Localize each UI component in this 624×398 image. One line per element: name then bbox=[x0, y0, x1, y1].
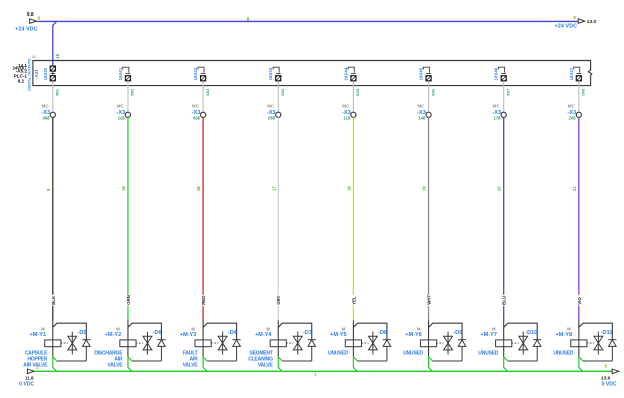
pneumatic valve symbol branch 7 bbox=[519, 332, 528, 355]
valve coil return wire branch 4 bbox=[277, 347, 279, 357]
internal jumper hook branch 3 bbox=[198, 67, 204, 72]
svg-text:VIO: VIO bbox=[577, 297, 582, 305]
wire BLU branch 7 bbox=[503, 117, 505, 320]
svg-text:178: 178 bbox=[494, 115, 502, 120]
solenoid coil +M-Y2 bbox=[120, 340, 136, 347]
node 0 VDC supply arrow from sheet 11.8 (off-page arrow) bbox=[27, 369, 34, 374]
diode -D11 bbox=[608, 340, 616, 361]
svg-text:MC: MC bbox=[192, 104, 200, 109]
terminal connection dash branch 1 bbox=[51, 73, 56, 75]
svg-text:148: 148 bbox=[418, 115, 426, 120]
wire color label GRN bbox=[125, 295, 130, 306]
wire YEL branch 5 bbox=[352, 117, 354, 320]
svg-text:-D11: -D11 bbox=[601, 330, 613, 336]
diode -D7 bbox=[308, 340, 316, 361]
wire green return diagonal branch 7 bbox=[504, 357, 508, 361]
valve actuator link (dashed) branch 8 bbox=[586, 342, 594, 344]
terminal connection dash branch 4 bbox=[276, 73, 281, 75]
svg-text:-D7: -D7 bbox=[303, 330, 312, 336]
connector -X3 pin circle branch 6 bbox=[426, 112, 431, 117]
valve coil return wire branch 1 bbox=[52, 347, 54, 357]
svg-text:098: 098 bbox=[43, 115, 51, 120]
valve coil feed wire branch 4 bbox=[277, 321, 279, 340]
diode branch tap -D10 bbox=[504, 323, 538, 340]
valve coil return wire branch 8 bbox=[578, 347, 580, 357]
svg-text:MC: MC bbox=[418, 104, 426, 109]
wire color label VIO bbox=[576, 295, 581, 306]
svg-text:19: 19 bbox=[422, 186, 427, 191]
svg-text:+M-Y7: +M-Y7 bbox=[480, 332, 497, 338]
svg-text:BLK: BLK bbox=[51, 295, 56, 305]
solenoid coil +M-Y6 bbox=[420, 340, 436, 347]
svg-text:16045: 16045 bbox=[419, 67, 424, 80]
pneumatic valve symbol branch 8 bbox=[594, 332, 603, 355]
svg-text:8: 8 bbox=[573, 15, 576, 20]
svg-text:8: 8 bbox=[38, 15, 41, 20]
diode branch tap -D11 bbox=[579, 323, 613, 340]
svg-text:VALVE: VALVE bbox=[108, 362, 124, 368]
svg-text:M: M bbox=[41, 326, 45, 331]
terminal 7 symbol (bottom) bbox=[501, 75, 507, 81]
svg-text:21: 21 bbox=[572, 186, 577, 191]
svg-text:5: 5 bbox=[605, 364, 608, 369]
svg-text:M: M bbox=[191, 326, 195, 331]
svg-text:GRY: GRY bbox=[276, 295, 281, 304]
solenoid coil +M-Y5 bbox=[345, 340, 361, 347]
svg-text:16042: 16042 bbox=[193, 67, 198, 80]
svg-text:058: 058 bbox=[193, 115, 201, 120]
svg-text:0 VDC: 0 VDC bbox=[602, 382, 617, 388]
svg-text:14: 14 bbox=[32, 55, 36, 59]
wire color label YEL bbox=[351, 295, 356, 306]
diode -D6 bbox=[157, 340, 165, 361]
valve coil return wire branch 5 bbox=[352, 347, 354, 357]
wire GRY branch 4 bbox=[277, 117, 279, 320]
svg-text:-A21: -A21 bbox=[34, 69, 39, 79]
terminal 8 symbol (bottom) bbox=[576, 75, 582, 81]
svg-text:+M-Y2: +M-Y2 bbox=[105, 332, 122, 338]
valve actuator link (dashed) branch 2 bbox=[136, 342, 144, 344]
svg-text:5A3: 5A3 bbox=[206, 89, 210, 96]
module -A21 output terminal box bbox=[33, 61, 592, 86]
svg-text:9.8: 9.8 bbox=[27, 12, 34, 18]
diode -D9 bbox=[458, 340, 466, 361]
pneumatic valve symbol branch 4 bbox=[293, 332, 302, 355]
wire green return diagonal branch 4 bbox=[278, 357, 282, 361]
terminal 1a symbol (branch 1 top) bbox=[50, 65, 56, 71]
pneumatic valve symbol branch 6 bbox=[444, 332, 453, 355]
svg-text:5A5: 5A5 bbox=[356, 89, 360, 96]
terminal 2 symbol (bottom) bbox=[125, 75, 131, 81]
svg-text:16041: 16041 bbox=[118, 67, 123, 80]
svg-text:5A6: 5A6 bbox=[431, 89, 435, 96]
valve actuator link (dashed) branch 1 bbox=[60, 342, 68, 344]
terminal link branch 1 bbox=[52, 72, 54, 75]
diode -D4 bbox=[233, 340, 241, 361]
connector -X3 pin circle branch 5 bbox=[351, 112, 356, 117]
internal jumper hook branch 6 bbox=[423, 67, 429, 72]
diode return rail branch 7 bbox=[508, 360, 538, 362]
wire 0VDC drop branch 4 bbox=[278, 356, 282, 371]
solenoid coil +M-Y7 bbox=[496, 340, 512, 347]
svg-text:15: 15 bbox=[55, 53, 60, 58]
wire 0VDC drop branch 2 bbox=[128, 356, 132, 371]
solenoid coil +M-Y4 bbox=[270, 340, 286, 347]
svg-text:WHT: WHT bbox=[427, 294, 432, 304]
svg-text:0 VDC: 0 VDC bbox=[19, 382, 34, 388]
diode -D5 bbox=[82, 340, 90, 361]
svg-text:UNUSED: UNUSED bbox=[478, 350, 498, 356]
wire BLK branch 1 bbox=[52, 117, 54, 320]
wire branch 3 module to connector (light grey) bbox=[202, 81, 204, 112]
valve actuator link (dashed) branch 6 bbox=[436, 342, 444, 344]
svg-text:13.0: 13.0 bbox=[587, 19, 597, 25]
svg-text:GRN: GRN bbox=[126, 295, 131, 305]
wire 0VDC drop branch 8 bbox=[579, 356, 583, 371]
svg-text:MC: MC bbox=[568, 104, 576, 109]
valve coil feed wire branch 1 bbox=[52, 321, 54, 340]
connector -X3 pin circle branch 7 bbox=[501, 112, 506, 117]
valve actuator link (dashed) branch 3 bbox=[211, 342, 219, 344]
svg-text:5A8: 5A8 bbox=[582, 89, 586, 96]
valve coil feed wire branch 6 bbox=[428, 321, 430, 340]
internal jumper hook branch 7 bbox=[499, 67, 505, 72]
svg-text:17: 17 bbox=[271, 186, 276, 191]
wire color label WHT bbox=[426, 295, 431, 306]
svg-text:+M-Y4: +M-Y4 bbox=[255, 332, 273, 338]
diode return rail branch 4 bbox=[282, 360, 312, 362]
svg-text:+M-Y1: +M-Y1 bbox=[29, 332, 46, 338]
valve actuator link (dashed) branch 5 bbox=[361, 342, 369, 344]
diode -D8 bbox=[383, 340, 391, 361]
wire 0VDC drop branch 7 bbox=[504, 356, 508, 371]
wire +24 VDC bus bbox=[36, 20, 578, 22]
svg-text:8: 8 bbox=[247, 17, 250, 22]
svg-text:16040: 16040 bbox=[43, 67, 48, 80]
connector -X3 pin circle branch 4 bbox=[276, 112, 281, 117]
wire green return diagonal branch 6 bbox=[429, 357, 433, 361]
svg-text:+M-Y8: +M-Y8 bbox=[556, 332, 573, 338]
valve coil return wire branch 2 bbox=[127, 347, 129, 357]
svg-text:5A4: 5A4 bbox=[281, 88, 285, 96]
wire branch 2 module to connector (light grey) bbox=[127, 81, 129, 112]
wire branch 6 module to connector (light grey) bbox=[428, 81, 430, 112]
svg-text:BLU: BLU bbox=[502, 296, 507, 305]
terminal 1 symbol (bottom) bbox=[50, 75, 56, 81]
svg-text:-D5: -D5 bbox=[77, 330, 86, 336]
diode return rail branch 2 bbox=[132, 360, 162, 362]
valve actuator link (dashed) branch 4 bbox=[286, 342, 294, 344]
svg-text:1: 1 bbox=[314, 372, 317, 377]
wire branch 4 module to connector (light grey) bbox=[277, 81, 279, 112]
diode return rail branch 8 bbox=[583, 360, 613, 362]
internal jumper hook branch 2 bbox=[123, 67, 129, 72]
terminal connection dash branch 8 bbox=[577, 73, 582, 75]
wire color label RED bbox=[201, 295, 206, 306]
svg-text:-D10: -D10 bbox=[525, 330, 537, 336]
svg-text:M: M bbox=[342, 326, 346, 331]
valve coil return wire branch 6 bbox=[428, 347, 430, 357]
wire color label BLK bbox=[50, 295, 55, 306]
wire branch 7 module to connector (light grey) bbox=[503, 81, 505, 112]
wire +24VDC drop to module branch 1 bbox=[53, 21, 57, 65]
svg-text:VALVE: VALVE bbox=[258, 362, 274, 368]
valve coil return wire branch 3 bbox=[202, 347, 204, 357]
svg-text:+M-Y6: +M-Y6 bbox=[405, 332, 422, 338]
solenoid coil +M-Y3 bbox=[195, 340, 211, 347]
svg-text:UNUSED: UNUSED bbox=[553, 350, 573, 356]
wire branch 8 module to connector (light grey) bbox=[578, 81, 580, 112]
wire green return diagonal branch 1 bbox=[53, 357, 57, 361]
diode branch tap -D8 bbox=[353, 323, 387, 340]
svg-text:+24 VDC: +24 VDC bbox=[555, 23, 578, 29]
svg-text:-D8: -D8 bbox=[378, 330, 387, 336]
svg-text:M: M bbox=[116, 326, 120, 331]
svg-text:MC: MC bbox=[342, 104, 350, 109]
svg-text:128: 128 bbox=[118, 115, 126, 120]
terminal 4 symbol (bottom) bbox=[275, 75, 281, 81]
svg-text:MC: MC bbox=[267, 104, 275, 109]
svg-text:MC: MC bbox=[117, 104, 125, 109]
svg-text:8.2: 8.2 bbox=[18, 78, 25, 83]
diode return rail branch 3 bbox=[207, 360, 237, 362]
svg-text:11.8: 11.8 bbox=[25, 376, 34, 381]
diode return rail branch 6 bbox=[433, 360, 463, 362]
diode branch tap -D9 bbox=[429, 323, 463, 340]
wire WHT branch 6 bbox=[428, 117, 430, 320]
terminal 6 symbol (bottom) bbox=[425, 75, 431, 81]
terminal connection dash branch 3 bbox=[201, 73, 206, 75]
svg-text:M: M bbox=[267, 326, 271, 331]
diode return rail branch 5 bbox=[357, 360, 387, 362]
connector -X3 pin circle branch 3 bbox=[201, 112, 206, 117]
svg-text:RED: RED bbox=[201, 296, 206, 305]
svg-text:YEL: YEL bbox=[351, 296, 356, 305]
terminal connection dash branch 2 bbox=[126, 73, 131, 75]
svg-text:DIGITAL OUTPUTS: DIGITAL OUTPUTS bbox=[27, 58, 31, 91]
svg-text:18: 18 bbox=[346, 186, 351, 191]
svg-text:-D6: -D6 bbox=[153, 330, 162, 336]
connector -X3 pin circle branch 8 bbox=[576, 112, 581, 117]
svg-text:088: 088 bbox=[268, 115, 276, 120]
diode branch tap -D4 bbox=[203, 323, 237, 340]
solenoid coil +M-Y1 bbox=[45, 340, 61, 347]
pneumatic valve symbol branch 2 bbox=[143, 332, 152, 355]
svg-text:M: M bbox=[417, 326, 421, 331]
svg-text:VALVE: VALVE bbox=[183, 362, 199, 368]
svg-text:16046: 16046 bbox=[494, 67, 499, 80]
svg-text:9: 9 bbox=[46, 188, 51, 191]
terminal connection dash branch 5 bbox=[351, 73, 356, 75]
diode branch tap -D5 bbox=[53, 323, 87, 340]
pneumatic valve symbol branch 1 bbox=[68, 332, 77, 355]
svg-text:9B1: 9B1 bbox=[56, 89, 60, 96]
wire VIO branch 8 bbox=[578, 117, 580, 320]
wire color label BLU bbox=[501, 295, 506, 306]
svg-text:208: 208 bbox=[569, 115, 577, 120]
svg-text:16044: 16044 bbox=[343, 67, 348, 80]
wire RED branch 3 bbox=[202, 117, 204, 320]
wire green return diagonal branch 5 bbox=[353, 357, 357, 361]
node 0 VDC to sheet 13.0 (off-page arrow) bbox=[612, 369, 619, 374]
svg-text:MC: MC bbox=[42, 104, 50, 109]
valve coil return wire branch 7 bbox=[503, 347, 505, 357]
pneumatic valve symbol branch 5 bbox=[369, 332, 378, 355]
wire branch 1 module to connector (light grey) bbox=[52, 81, 54, 112]
connector -X3 pin circle branch 1 bbox=[50, 112, 55, 117]
node +24 VDC to sheet 13.0 (off-page arrow) bbox=[578, 19, 585, 24]
diode branch tap -D6 bbox=[128, 323, 162, 340]
valve coil feed wire branch 5 bbox=[352, 321, 354, 340]
valve actuator link (dashed) branch 7 bbox=[511, 342, 519, 344]
pneumatic valve symbol branch 3 bbox=[218, 332, 227, 355]
svg-text:16043: 16043 bbox=[268, 67, 273, 80]
internal jumper hook branch 8 bbox=[574, 67, 580, 72]
wire GRN branch 2 bbox=[127, 117, 129, 320]
wire branch 5 module to connector (light grey) bbox=[352, 81, 354, 112]
svg-text:+M-Y5: +M-Y5 bbox=[330, 332, 347, 338]
terminal connection dash branch 7 bbox=[501, 73, 506, 75]
svg-text:-D9: -D9 bbox=[453, 330, 462, 336]
svg-text:MC: MC bbox=[493, 104, 501, 109]
wire color label GRY bbox=[276, 295, 281, 306]
terminal 3 symbol (bottom) bbox=[200, 75, 206, 81]
wire 0 VDC bus bbox=[34, 370, 612, 372]
internal jumper hook branch 4 bbox=[273, 67, 279, 72]
svg-text:+24 VDC: +24 VDC bbox=[15, 26, 38, 32]
internal jumper hook branch 5 bbox=[348, 67, 354, 72]
diode -D10 bbox=[533, 340, 541, 361]
svg-text:20: 20 bbox=[497, 186, 502, 191]
svg-text:UNUSED: UNUSED bbox=[328, 350, 348, 356]
diode return rail branch 1 bbox=[57, 360, 87, 362]
svg-text:M: M bbox=[492, 326, 496, 331]
wire 0VDC drop branch 3 bbox=[203, 356, 207, 371]
diode branch tap -D7 bbox=[278, 323, 312, 340]
valve coil feed wire branch 2 bbox=[127, 321, 129, 340]
svg-text:+M-Y3: +M-Y3 bbox=[180, 332, 197, 338]
solenoid coil +M-Y8 bbox=[571, 340, 587, 347]
svg-text:UNUSED: UNUSED bbox=[403, 350, 423, 356]
svg-text:15: 15 bbox=[121, 186, 126, 191]
wire green return diagonal branch 2 bbox=[128, 357, 132, 361]
svg-text:118: 118 bbox=[343, 115, 350, 120]
node +24 VDC supply arrow from sheet 9.8 (off-page arrow) bbox=[30, 19, 37, 24]
wire green return diagonal branch 8 bbox=[579, 357, 583, 361]
valve coil feed wire branch 8 bbox=[578, 321, 580, 340]
svg-text:16047: 16047 bbox=[569, 67, 574, 80]
valve coil feed wire branch 7 bbox=[503, 321, 505, 340]
wire 0VDC drop branch 6 bbox=[429, 356, 433, 371]
svg-text:-D4: -D4 bbox=[228, 330, 238, 336]
terminal connection dash branch 6 bbox=[426, 73, 431, 75]
valve coil feed wire branch 3 bbox=[202, 321, 204, 340]
svg-text:16: 16 bbox=[196, 186, 201, 191]
svg-text:5A2: 5A2 bbox=[131, 89, 135, 96]
svg-text:5A7: 5A7 bbox=[507, 89, 511, 96]
connector -X3 pin circle branch 2 bbox=[125, 112, 130, 117]
svg-text:M: M bbox=[567, 326, 571, 331]
wire 0VDC drop branch 5 bbox=[353, 356, 357, 371]
wire 0VDC drop branch 1 bbox=[53, 356, 57, 371]
wire green return diagonal branch 3 bbox=[203, 357, 207, 361]
terminal 5 symbol (bottom) bbox=[350, 75, 356, 81]
